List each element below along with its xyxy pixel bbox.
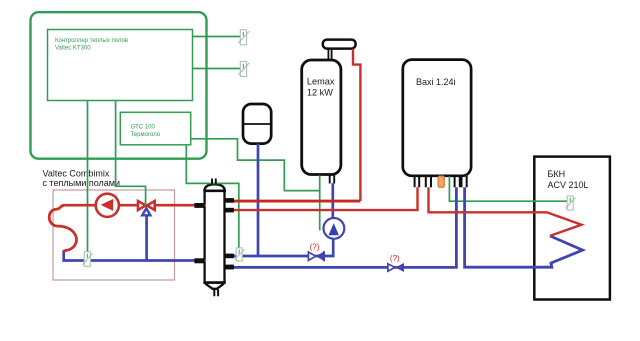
separator bottom cap: [203, 281, 225, 284]
svg-text:Baxi 1.24i: Baxi 1.24i: [416, 77, 456, 87]
pipe red Lemax supply: [353, 49, 360, 201]
sensor S4 separator: [235, 248, 245, 261]
svg-text:Lemax: Lemax: [307, 77, 335, 87]
pump P2 boiler circuit: [324, 218, 345, 239]
svg-text:БКН: БКН: [548, 169, 566, 179]
boiler Baxi 1.24i body: [403, 60, 471, 176]
wire KT300 to mixing valve actuator: [116, 101, 146, 205]
separator nipple bars: [212, 179, 216, 185]
svg-text:Valtec Combimix: Valtec Combimix: [43, 169, 110, 179]
pipe blue Baxi return: [225, 187, 457, 267]
sensor S3 floor: [83, 252, 93, 266]
sensor S2: [238, 62, 249, 77]
tank БКН ACV 210L: [534, 157, 610, 300]
Baxi bottom stub bars: [415, 176, 467, 188]
pipe red floor supply: [65, 204, 206, 207]
Lemax bottom stub bars: [330, 175, 335, 184]
wire KT300 to floor sensor S3: [87, 101, 89, 252]
separator dome top: [204, 184, 224, 190]
check valve 2: [388, 264, 395, 271]
pipe red Baxi DHW supply to tank coil: [429, 187, 582, 236]
pipe blue Baxi DHW to tank coil: [465, 187, 583, 267]
wire KT300 to sensor S1: [193, 36, 241, 38]
controller outer enclosure box: [31, 12, 207, 159]
pipe red supply collector: [225, 200, 361, 203]
pipe red Baxi supply to separator: [225, 187, 418, 210]
svg-text:Контроллер теплых полов: Контроллер теплых полов: [55, 38, 128, 44]
chimney stub bars: [328, 49, 331, 60]
combimix module boundary box: [53, 190, 175, 280]
svg-text:Valtec KT300: Valtec KT300: [55, 46, 91, 52]
check valve 1: [308, 252, 315, 260]
separator right top stub 2: [224, 208, 234, 213]
svg-text:с теплыми полами: с теплыми полами: [43, 178, 121, 188]
svg-text:ACV 210L: ACV 210L: [548, 180, 589, 190]
pipe blue pump to Lemax: [331, 183, 334, 218]
sensor S1: [238, 30, 249, 45]
wire KT300 to sensor S2: [193, 68, 241, 70]
boiler Lemax 12kW body: [302, 60, 341, 175]
svg-text:GTC 100: GTC 100: [131, 125, 156, 131]
pipe blue Lemax return: [225, 239, 334, 256]
sensor S5 tank: [566, 196, 576, 210]
wire Baxi to tank sensor S5: [449, 176, 567, 201]
svg-text:12 kW: 12 kW: [307, 88, 333, 98]
mixing valve 3-way: [138, 201, 146, 210]
separator right top stub 1: [224, 198, 234, 203]
chimney cap of Lemax: [323, 40, 356, 49]
pipe blue expansion tank drop: [257, 144, 260, 256]
hydraulic separator body: [205, 191, 225, 283]
svg-text:(?): (?): [390, 254, 400, 263]
svg-text:(?): (?): [310, 243, 320, 252]
separator left bottom stub: [194, 258, 204, 263]
expansion tank: [243, 104, 271, 144]
separator bottom stub bars: [214, 289, 218, 296]
gas connection orange: [438, 176, 444, 187]
controller U1 Valtec KT300 box: [48, 30, 193, 101]
pipe blue floor return: [64, 251, 206, 260]
wire GTC to separator sensor S4: [186, 145, 239, 248]
pipe blue valve drop: [145, 215, 148, 261]
pipe red floor heating coil: [49, 205, 76, 252]
pump P1 floor circuit: [96, 194, 119, 217]
wire GTC to Lemax and pump: [191, 139, 320, 231]
separator right bottom stub 2: [224, 265, 234, 270]
separator left top stub: [194, 203, 204, 208]
svg-text:Термоголо: Термоголо: [131, 132, 161, 138]
thermostat box GTC 100: [120, 112, 190, 145]
separator right bottom stub 1: [224, 254, 234, 259]
